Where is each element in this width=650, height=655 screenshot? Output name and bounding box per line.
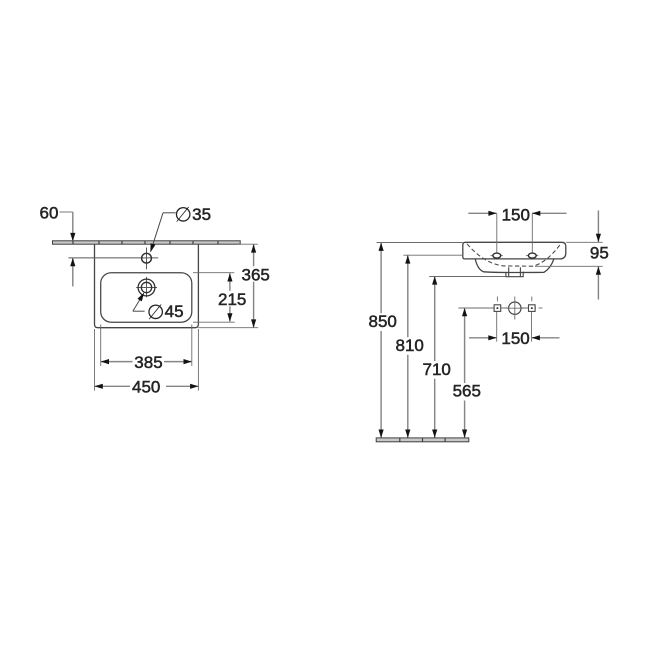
svg-text:95: 95	[590, 244, 609, 263]
dimension 150 top line	[468, 212, 496, 214]
mounting holes vertical dashes	[496, 297, 498, 302]
floor bar tick marks	[400, 438, 445, 441]
dimension 850 line	[380, 243, 382, 314]
tap hole cross lines	[514, 297, 516, 320]
svg-text:810: 810	[396, 336, 424, 355]
dimension 365 line	[253, 244, 255, 266]
drain outlet tab	[506, 267, 523, 276]
drain hole inner circle	[141, 282, 151, 292]
dimension 710 line	[434, 276, 436, 361]
fixing hole left square	[494, 305, 501, 312]
dimension 385 line	[101, 361, 133, 363]
height extension lines left	[377, 242, 463, 244]
faucet hole extension lines	[496, 213, 498, 253]
faucet hole right ellipse	[528, 253, 536, 258]
mounting holes center line horizontal	[459, 307, 537, 309]
dimension 365 extension lines	[238, 243, 258, 245]
drain hole center line vertical	[146, 277, 148, 297]
wall line left of basin	[403, 254, 462, 256]
dimension 850 arrows	[379, 243, 384, 251]
faucet hole left ellipse	[493, 253, 501, 258]
dimension 150 bottom line	[469, 337, 497, 339]
leader for diameter 45	[133, 310, 145, 312]
leader for diameter 35	[163, 212, 176, 214]
dimension 215 line	[229, 273, 231, 291]
faucet hole tick marks	[491, 255, 503, 257]
floor bar	[376, 438, 469, 442]
dimension 150 bottom arrows	[488, 335, 496, 340]
svg-text:∅35: ∅35	[174, 204, 211, 227]
tap hole center line vertical	[146, 248, 148, 270]
tap hole circle	[142, 253, 152, 263]
dimension 60 arrows	[70, 233, 75, 241]
svg-text:565: 565	[453, 382, 481, 401]
drain hole center line horizontal	[136, 287, 157, 289]
tap hole circle front view	[509, 302, 521, 314]
dimension 150 top arrows	[488, 211, 496, 216]
tap hole center line horizontal (60 reference)	[68, 257, 158, 259]
svg-text:150: 150	[502, 205, 530, 224]
dimension 95 extension lines	[566, 241, 603, 243]
dimension 215 extension lines	[193, 272, 234, 274]
svg-text:385: 385	[134, 353, 162, 372]
svg-text:365: 365	[242, 266, 270, 285]
wall bar (mounting wall, top view)	[53, 241, 241, 244]
dimension 385 extension lines	[100, 325, 102, 366]
dimension 450 extension lines	[94, 329, 96, 391]
dimension 710 arrows	[432, 276, 437, 284]
svg-text:450: 450	[132, 378, 160, 397]
dimension 810 line	[407, 255, 409, 337]
wall bar tick marks	[73, 241, 218, 244]
svg-text:215: 215	[218, 290, 246, 309]
dimension 365 arrows	[251, 244, 256, 252]
arrowhead of 45 leader	[137, 292, 144, 301]
dimension 565 arrows	[462, 308, 467, 316]
dimension 215 arrows	[227, 273, 232, 281]
dimension 60 leader and lines	[60, 211, 73, 213]
hidden bowl outline dashed	[467, 243, 562, 267]
basin outer rim outline	[95, 244, 199, 328]
dimension 450 arrows	[95, 384, 103, 389]
dimension 450 line	[95, 385, 131, 387]
dimension 385 arrows	[101, 359, 109, 364]
lower bowl body	[475, 259, 554, 272]
dimension 95 arrows	[596, 234, 601, 242]
fixing hole right square	[529, 305, 536, 312]
fixing holes extension lines down	[496, 312, 498, 342]
basin inner bowl rounded rect	[101, 273, 192, 323]
basin upper body	[463, 242, 566, 259]
svg-text:850: 850	[369, 312, 397, 331]
dimension 565 line	[464, 308, 466, 383]
dimension 810 arrows	[405, 255, 410, 263]
svg-text:60: 60	[40, 203, 59, 222]
drain hole outer circle	[138, 279, 155, 296]
arrowhead of 35 leader	[150, 243, 155, 252]
svg-text:150: 150	[501, 329, 529, 348]
svg-text:∅45: ∅45	[147, 301, 184, 324]
dimension 95 lines	[597, 211, 599, 243]
svg-text:710: 710	[423, 360, 451, 379]
